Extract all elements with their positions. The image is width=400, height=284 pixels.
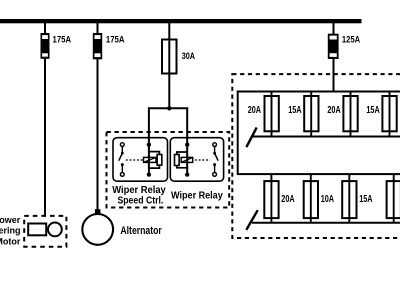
fuse row1 #4 (15A) (382, 96, 396, 131)
fuse panel inner solid box (238, 92, 400, 175)
fuse row1 #3 (20A) (343, 96, 357, 131)
power steering motor dashed box (24, 216, 66, 247)
label Wiper Relay Speed Ctrl. (112, 185, 166, 207)
wire to wiper relay speed ctrl coil (148, 107, 150, 174)
fuse 175A (power steering) (41, 33, 50, 59)
relay module outer dashed box (107, 132, 230, 208)
relay 1: coil (rect with diagonal) (144, 157, 157, 162)
motor body rect (28, 224, 46, 236)
motor circle (48, 223, 62, 237)
fuse row2 #3 wire (348, 174, 350, 223)
svg-text:30A: 30A (182, 51, 195, 62)
svg-text:20A: 20A (327, 105, 340, 116)
fuse panel outer dashed box (232, 74, 400, 238)
fuse row1 #4 wire (389, 92, 391, 137)
svg-text:15A: 15A (288, 105, 301, 116)
svg-text:10A: 10A (321, 194, 334, 205)
relay 2: parallel resistor branch (175, 152, 188, 168)
svg-text:Speed Ctrl.: Speed Ctrl. (117, 196, 163, 207)
bus bar (main positive battery bus) (0, 19, 362, 23)
relay 1: parallel resistor branch (149, 152, 162, 169)
relay 1 (speed ctrl): pin dot top (147, 142, 151, 146)
fuse row1 #2 (15A) (304, 96, 318, 131)
wire to wiper relay coil (186, 107, 188, 174)
svg-text:175A: 175A (53, 35, 72, 45)
svg-text:175A: 175A (106, 35, 125, 45)
relay 2: pin dot bottom (185, 172, 189, 176)
relay 2 (wiper relay): pin dot top (185, 142, 189, 146)
svg-text:Power: Power (0, 215, 21, 225)
fuse row2 #1 wire (270, 174, 272, 223)
fuse row1 #2 wire (310, 92, 312, 137)
top fuse row bus (253, 136, 400, 138)
bottom row continuation slash (246, 210, 257, 230)
junction node (30A feed split) (167, 106, 171, 110)
fuse 125A (328, 34, 339, 59)
wire from bus to alternator (97, 23, 99, 210)
svg-text:Wiper Relay: Wiper Relay (112, 185, 166, 196)
wiper relay speed ctrl inner box (113, 138, 168, 182)
alternator circle (82, 214, 113, 245)
svg-text:20A: 20A (248, 105, 261, 116)
fuse row1 #3 wire (350, 92, 352, 137)
fuse 175A (alternator) (93, 33, 102, 59)
fuse row2 #4 (clipped) (387, 181, 400, 218)
svg-text:125A: 125A (342, 35, 361, 45)
fuse row2 #3 (15A) (342, 181, 356, 218)
fuse row2 #2 (10A) (304, 181, 318, 218)
wire from bus to power steering motor (44, 23, 46, 216)
fuse row2 #4 wire (clipped) (393, 174, 395, 223)
svg-text:Wiper Relay: Wiper Relay (171, 190, 223, 201)
svg-text:15A: 15A (366, 105, 379, 116)
wiper relay inner box (170, 138, 223, 182)
bottom fuse row bus (252, 222, 400, 224)
fuse row2 #1 (20A) (264, 181, 278, 218)
relay 1: actuation dashed link (126, 159, 143, 161)
relay 1: switch contact (119, 143, 124, 177)
relay 2: switch contact (213, 143, 218, 177)
top row continuation slash (246, 128, 256, 148)
svg-text:Alternator: Alternator (120, 225, 162, 237)
wire from bus through 125A fuse to fuse panel (333, 23, 335, 92)
wire from bus through 30A fuse to relay junction (168, 23, 170, 108)
wire splitter horizontal (149, 107, 187, 109)
svg-text:Motor: Motor (0, 236, 21, 246)
relay 1: pin dot bottom (147, 172, 151, 176)
relay 2: actuation dashed link (195, 159, 210, 161)
label Power Steering Motor (clipped at left edge) (0, 215, 21, 246)
alternator terminal (95, 209, 101, 214)
fuse row1 #1 wire (271, 92, 273, 137)
svg-text:Steering: Steering (0, 226, 21, 236)
svg-text:15A: 15A (359, 194, 372, 205)
fuse row2 #2 wire (310, 174, 312, 223)
fuse 30A (162, 40, 177, 74)
fuse row1 #1 (20A) (265, 96, 279, 131)
svg-text:20A: 20A (281, 194, 294, 205)
relay 2: coil (rect with diagonal) (181, 157, 193, 162)
